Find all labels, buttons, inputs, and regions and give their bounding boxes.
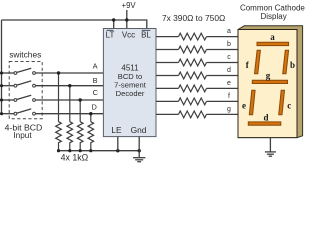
svg-text:c: c [287, 101, 291, 111]
svg-text:g: g [266, 71, 271, 81]
resistor Re (segment e) [156, 85, 238, 92]
resistor Rb (segment b) [156, 46, 238, 53]
svg-text:e: e [242, 101, 246, 111]
wire Gnd pin down [138, 137, 140, 158]
svg-text:Display: Display [260, 12, 286, 21]
junction dot A/R1 [57, 71, 60, 74]
svg-text:Input: Input [13, 131, 32, 140]
display DS1 front face [238, 30, 297, 138]
svg-text:7x 390Ω to 750Ω: 7x 390Ω to 750Ω [162, 13, 225, 23]
resistor R1 1k pulldown (A) [56, 73, 62, 151]
segment f [255, 50, 261, 73]
svg-text:g: g [227, 106, 231, 113]
junction dot rail row B [0, 84, 3, 87]
display DS1 3D depth [238, 26, 303, 138]
ground symbol under IC [133, 158, 145, 162]
svg-text:4x 1kΩ: 4x 1kΩ [61, 153, 89, 163]
resistor R3 1k pulldown (C) [77, 100, 83, 151]
svg-text:LT: LT [106, 31, 115, 40]
wire +9V stub to Vcc [126, 10, 128, 20]
svg-text:B: B [93, 76, 98, 85]
svg-text:switches: switches [9, 50, 41, 60]
segment a [257, 42, 289, 45]
segment g [252, 80, 287, 83]
svg-text:D: D [92, 103, 97, 112]
junction dot rail row D [0, 112, 3, 115]
resistor Rd (segment d) [156, 72, 238, 79]
junction dot rail row C [0, 98, 3, 101]
resistor R4 1k pulldown (D) [88, 114, 94, 151]
junction dot D/R4 [89, 112, 92, 115]
segment c [279, 90, 285, 115]
svg-text:a: a [227, 28, 231, 35]
ground symbol under display [265, 152, 276, 156]
svg-text:d: d [263, 113, 268, 123]
wire bottom ground rail [59, 150, 140, 152]
resistor Rg (segment g) [156, 111, 238, 118]
op IC U1 4511 body [103, 29, 156, 137]
svg-text:f: f [228, 93, 230, 100]
segment e [249, 90, 255, 115]
svg-text:b: b [290, 60, 295, 70]
svg-text:b: b [227, 41, 231, 48]
switch SW4 (row D) [2, 109, 104, 115]
svg-text:Decoder: Decoder [116, 89, 145, 98]
junction dot B/R2 [68, 84, 71, 87]
resistor Rf (segment f) [156, 98, 238, 105]
wire top rail from left rail to BL pin [2, 20, 147, 29]
junction dot C/R3 [79, 98, 82, 101]
wire Vcc pin stub [126, 20, 128, 29]
switch SW3 (row C) [2, 95, 104, 101]
segment d [248, 122, 280, 125]
wire left vertical rail [1, 20, 3, 114]
svg-text:C: C [93, 88, 99, 97]
resistor Ra (segment a) [156, 33, 238, 40]
junction dot LT rail [112, 18, 115, 21]
svg-text:BL: BL [141, 31, 151, 40]
svg-text:+9V: +9V [122, 1, 137, 10]
svg-text:a: a [270, 32, 275, 42]
resistor Rc (segment c) [156, 59, 238, 66]
svg-text:LE: LE [111, 125, 122, 135]
junction dot rail row A [0, 71, 3, 74]
junction dots on ground rail [57, 149, 60, 152]
svg-text:d: d [227, 67, 231, 74]
svg-text:Gnd: Gnd [131, 125, 147, 135]
wire display cathode to ground [269, 138, 271, 152]
switch SW2 (row B) [2, 81, 104, 87]
switch SW1 (row A) [2, 68, 104, 74]
svg-text:e: e [227, 80, 231, 87]
svg-text:A: A [93, 62, 98, 71]
svg-text:Vcc: Vcc [122, 31, 135, 40]
junction dot Vcc rail [125, 18, 128, 21]
resistor R2 1k pulldown (B) [67, 86, 73, 151]
svg-text:c: c [227, 54, 231, 61]
segment b [283, 50, 289, 73]
switches dashed enclosure [9, 62, 42, 119]
wire LE pin to ground rail [117, 137, 119, 151]
wire LT pin stub [113, 20, 115, 29]
